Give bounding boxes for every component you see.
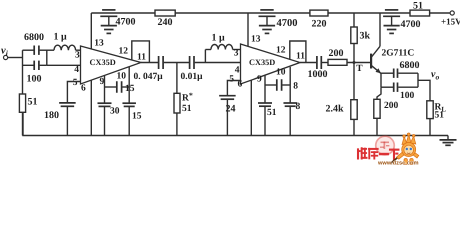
svg-text:51: 51	[267, 108, 277, 118]
wire input bottom branch left	[23, 64, 34, 66]
label 51 input	[28, 97, 38, 108]
label pin10 U2	[276, 68, 286, 78]
capacitor 100 (input bottom)	[34, 61, 39, 70]
wire input node vertical	[22, 50, 24, 94]
svg-text:13: 13	[251, 35, 261, 45]
svg-text:51: 51	[413, 1, 423, 12]
svg-text:4700: 4700	[277, 18, 298, 29]
svg-text:0. 047μ: 0. 047μ	[134, 72, 164, 82]
wire pin9 stub U1	[104, 76, 106, 104]
wire 51 to ground rail	[22, 112, 24, 135]
wire input bottom branch right	[40, 64, 47, 66]
label 6800 input	[24, 32, 44, 43]
svg-text:10: 10	[117, 72, 127, 82]
wire 8cap to rail	[289, 106, 291, 135]
svg-text:4700: 4700	[401, 19, 421, 30]
wire joining vertical after input caps	[46, 50, 48, 65]
svg-text:4: 4	[235, 66, 240, 76]
svg-text:3: 3	[75, 51, 80, 61]
resistor 200 (emitter)	[374, 99, 380, 118]
label pin10 U1	[117, 72, 127, 82]
svg-text:2G711C: 2G711C	[382, 49, 415, 59]
svg-text:11: 11	[296, 52, 305, 62]
label pin6 U2	[238, 80, 243, 90]
wire vo line	[418, 80, 430, 101]
svg-text:1 μ: 1 μ	[212, 33, 226, 44]
label 200 series	[329, 48, 344, 59]
wire interstage b	[195, 62, 241, 64]
wire pin10 stub U1	[128, 67, 130, 103]
resistor R* 51	[174, 63, 180, 136]
svg-text:6800: 6800	[24, 32, 44, 43]
wire pin4 line stage1	[47, 64, 81, 66]
svg-text:180: 180	[44, 110, 59, 121]
label pin13 U1	[94, 39, 104, 49]
svg-text:12: 12	[276, 46, 286, 56]
wire U1 output	[141, 62, 158, 64]
capacitor 4700 feedthrough (stage1)	[100, 10, 117, 34]
capacitor 8 (pin10)	[283, 103, 297, 106]
svg-text:6: 6	[81, 84, 86, 94]
wire 200 to rail	[376, 118, 378, 135]
resistor 2.4k	[351, 63, 357, 136]
label vo	[431, 69, 439, 82]
label pin9 U2	[257, 75, 262, 85]
label 4700 stage2	[277, 18, 298, 29]
label 1u stage1	[54, 32, 68, 43]
wire 1000 to 200	[322, 62, 328, 64]
label 15 pin10	[132, 112, 142, 122]
capacitor 6800 (input top)	[34, 46, 39, 55]
op-amp U1 CX35D	[81, 46, 142, 84]
label pin13 U2	[251, 35, 261, 45]
wire riser to coil stage2	[204, 50, 206, 63]
wire 15 to rail	[128, 106, 130, 135]
wire emitter down	[380, 73, 382, 87]
svg-text:51: 51	[182, 104, 192, 114]
wire RL to rail	[429, 119, 431, 136]
capacitor 24	[219, 96, 236, 100]
label pin4 U2	[235, 66, 240, 76]
label 200 emitter	[384, 101, 399, 111]
svg-text:+15V: +15V	[441, 17, 460, 27]
wire interstage a	[164, 62, 189, 64]
svg-text:www.dzsc.com: www.dzsc.com	[377, 159, 419, 166]
wire input top branch left	[23, 49, 34, 51]
node input terminal vi	[4, 55, 8, 59]
svg-text:10: 10	[276, 68, 286, 78]
wire pin6 U1 to rail	[90, 80, 92, 135]
capacitor 6800 (output top)	[381, 69, 418, 78]
label 24	[226, 104, 236, 115]
svg-text:11: 11	[137, 53, 146, 63]
svg-text:8: 8	[296, 102, 301, 112]
resistor 200 (series)	[328, 59, 347, 65]
label vi	[1, 46, 9, 59]
label 4700 output	[401, 19, 421, 30]
node +15V terminal	[450, 11, 454, 15]
wire 24 to rail	[226, 99, 228, 135]
inductor 1u (stage2)	[205, 45, 240, 50]
label 100 input	[27, 73, 42, 84]
label pin11 U1	[137, 53, 146, 63]
label 2G711C	[382, 49, 415, 59]
capacitor 15 (pins9-10)	[105, 81, 130, 93]
svg-text:220: 220	[312, 19, 327, 30]
svg-text:240: 240	[158, 17, 173, 28]
wire 30 to rail	[104, 106, 106, 135]
svg-text:3: 3	[234, 49, 239, 59]
svg-text:9: 9	[257, 75, 262, 85]
label 100 output	[400, 91, 415, 101]
wire 180 to rail	[66, 106, 68, 135]
label pin9 U1	[100, 77, 105, 87]
wire pin6 U2 to rail	[250, 80, 252, 135]
label RL	[435, 103, 447, 114]
svg-text:4700: 4700	[116, 17, 136, 28]
label T	[356, 64, 363, 74]
capacitor 180	[59, 103, 76, 106]
svg-text:1000: 1000	[308, 69, 328, 80]
wire input top branch right	[40, 49, 54, 51]
label 220	[312, 19, 327, 30]
resistor 51 (rail)	[410, 10, 430, 16]
resistor 240 (rail)	[155, 10, 175, 16]
svg-text:30: 30	[110, 107, 120, 117]
svg-text:3k: 3k	[360, 31, 371, 42]
resistor 51 (input)	[19, 94, 25, 112]
wire pin13 U2 to rail	[247, 13, 249, 47]
svg-text:12: 12	[119, 47, 129, 57]
svg-text:100: 100	[400, 91, 415, 101]
label 3k	[360, 31, 371, 42]
resistor 3k	[351, 13, 357, 63]
resistor RL 51	[427, 101, 433, 119]
wire 51cap to rail	[264, 106, 266, 135]
wire pin5 line U2	[227, 81, 240, 96]
label pin12 U1	[119, 47, 129, 57]
label pin5 U2	[229, 75, 234, 85]
wire emitter to 200	[377, 87, 381, 99]
svg-text:8: 8	[293, 82, 298, 92]
svg-text:6800: 6800	[400, 60, 420, 71]
label 8 pins9-10	[293, 82, 298, 92]
capacitor 51 (stage2 bottom)	[258, 103, 272, 106]
svg-text:51: 51	[435, 111, 445, 121]
svg-text:15: 15	[132, 112, 142, 122]
label 180	[44, 110, 59, 121]
wire coil to pin3	[76, 49, 81, 51]
svg-text:13: 13	[94, 39, 104, 49]
wire 200 to base	[347, 62, 370, 64]
capacitor 30	[98, 103, 112, 106]
label 2.4k	[326, 104, 345, 115]
label 4700 stage1	[116, 17, 136, 28]
capacitor 100 (output bottom)	[381, 83, 418, 92]
op-amp U2 CX35D	[241, 44, 301, 84]
svg-text:CX35D: CX35D	[249, 58, 275, 67]
label 1000	[308, 69, 328, 80]
label pin4 U1	[74, 65, 79, 75]
capacitor 4700 feedthrough (stage2)	[259, 10, 276, 34]
svg-text:CX35D: CX35D	[90, 58, 116, 67]
capacitor 1000	[317, 56, 321, 69]
ground (output)	[440, 136, 457, 146]
label pin3 U1	[75, 51, 80, 61]
label 15 pins9-10	[125, 84, 135, 94]
svg-text:5: 5	[229, 75, 234, 85]
node base junction	[353, 61, 356, 64]
wire output right vertical	[417, 73, 419, 87]
wire pin5 line U1	[67, 82, 80, 103]
label 0.047u	[134, 72, 164, 82]
wire pin10 stub U2	[289, 67, 291, 103]
svg-text:2.4k: 2.4k	[326, 104, 345, 115]
label 30	[110, 107, 120, 117]
svg-text:51: 51	[28, 97, 38, 108]
wire pin9 stub U2	[264, 76, 266, 104]
inductor 1u (stage1)	[54, 45, 76, 50]
svg-text:5: 5	[73, 78, 78, 88]
label pin6 U1	[81, 84, 86, 94]
svg-text:9: 9	[100, 77, 105, 87]
label 0.01u	[181, 72, 204, 82]
wire pin13 U1 to rail	[90, 13, 92, 49]
label pin3 U2	[234, 49, 239, 59]
label 51 RL	[435, 111, 445, 121]
label 51 rail	[413, 1, 423, 12]
label pin12 U2	[276, 46, 286, 56]
wire pin12-pin11 jumper U2	[290, 41, 306, 63]
resistor 220 (rail)	[310, 10, 328, 16]
capacitor 0.047u	[159, 56, 164, 69]
label 1u stage2	[212, 33, 226, 44]
svg-text:200: 200	[384, 101, 399, 111]
svg-text:0.01μ: 0.01μ	[181, 72, 204, 82]
wire pin12-pin11 jumper U1	[132, 41, 150, 63]
svg-text:100: 100	[27, 73, 42, 84]
wire U2 output	[300, 62, 316, 64]
label 51 R*	[182, 104, 192, 114]
transistor Q1 2G711C	[371, 13, 381, 73]
label pin5 U1	[73, 78, 78, 88]
capacitor 4700 feedthrough (output)	[383, 10, 400, 34]
label R*	[182, 91, 193, 104]
capacitor 0.01u	[190, 56, 194, 69]
label 6800 output	[400, 60, 420, 71]
wire ground rail (bottom)	[23, 94, 448, 136]
watermark dzsc logo	[357, 133, 419, 166]
label +15V	[441, 17, 460, 27]
wire top +15V supply rail	[91, 12, 450, 14]
svg-text:200: 200	[329, 48, 344, 59]
svg-text:T: T	[356, 64, 363, 74]
svg-text:1 μ: 1 μ	[54, 32, 68, 43]
wire input to node	[8, 57, 23, 59]
svg-text:4: 4	[74, 65, 79, 75]
label pin11 U2	[296, 52, 305, 62]
capacitor 8 (pins9-10)	[265, 79, 290, 91]
label 51 stage2	[267, 108, 277, 118]
capacitor 15 (pin10)	[122, 103, 136, 106]
label 8 pin10	[296, 102, 301, 112]
label 240	[158, 17, 173, 28]
